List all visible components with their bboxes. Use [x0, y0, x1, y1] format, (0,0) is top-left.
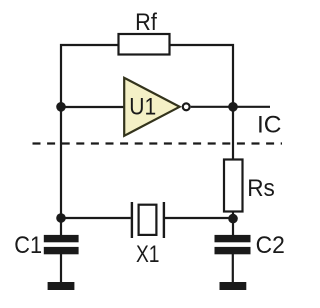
svg-text:Rs: Rs [247, 175, 275, 202]
svg-text:Rf: Rf [135, 9, 157, 36]
svg-text:C1: C1 [14, 232, 42, 259]
svg-text:IC: IC [257, 111, 282, 138]
svg-text:C2: C2 [256, 232, 285, 259]
svg-text:X1: X1 [136, 241, 160, 268]
svg-text:U1: U1 [129, 93, 156, 120]
